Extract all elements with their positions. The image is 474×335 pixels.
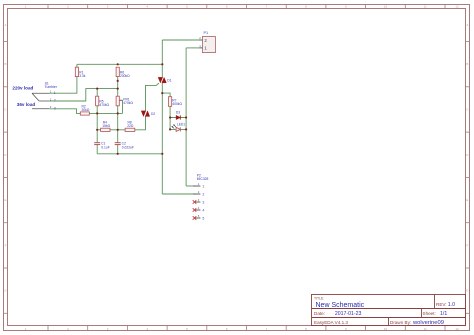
svg-text:0.022uF: 0.022uF: [122, 145, 134, 149]
wire top rail: [77, 63, 162, 65]
svg-text:11: 11: [424, 327, 427, 331]
wire right vertical P1 pin1 to P2 pin1: [185, 48, 187, 186]
svg-text:B: B: [4, 62, 6, 66]
junction dots: [96, 63, 187, 155]
svg-text:3: 3: [54, 107, 56, 111]
wire R5 column: [96, 89, 98, 97]
P2 pin 3 no-connect: [193, 200, 197, 204]
wire R7 branch: [162, 93, 170, 97]
svg-text:E: E: [4, 198, 6, 202]
svg-text:P1: P1: [204, 31, 209, 35]
svg-text:wolverine09: wolverine09: [412, 320, 444, 326]
wire C2 column: [117, 130, 119, 143]
junction bottom rail main vertical: [161, 153, 163, 155]
svg-text:220v load: 220v load: [12, 86, 33, 91]
wire R4 to R8: [110, 129, 125, 131]
frame ticks right: [466, 42, 470, 314]
wire P1 pin1 horizontal: [186, 47, 200, 49]
frame row letters: [4, 23, 469, 293]
svg-text:10: 10: [384, 327, 388, 331]
wire C1 bottom lead: [96, 145, 98, 154]
junction D3 right: [185, 116, 187, 118]
svg-text:400kΩ: 400kΩ: [172, 102, 182, 106]
svg-text:11: 11: [424, 4, 427, 8]
svg-text:F: F: [466, 243, 468, 247]
svg-text:A: A: [4, 23, 6, 27]
wire R2 to R5 PR1 bottom rail: [89, 112, 122, 114]
wire P1 pin2 horizontal: [162, 39, 199, 41]
junction top rail / P1 riser: [161, 63, 163, 65]
wire to P2 pin1: [186, 185, 194, 187]
junction D3 left: [169, 116, 171, 118]
triac D1: [158, 77, 171, 82]
svg-text:2: 2: [202, 193, 204, 197]
junction R4 left: [96, 129, 98, 131]
wire P1 pin2 riser: [161, 40, 163, 64]
svg-text:New Schematic: New Schematic: [316, 302, 365, 309]
wire R5 bottom to R4 row: [96, 113, 98, 129]
svg-text:3.3k: 3.3k: [79, 74, 86, 78]
title block: [312, 295, 466, 326]
svg-text:1: 1: [202, 185, 204, 189]
svg-text:F: F: [5, 243, 7, 247]
switch S1: [32, 81, 58, 110]
junction R5 top: [96, 88, 98, 90]
wire R4 left lead: [97, 129, 100, 131]
svg-text:2017-01-23: 2017-01-23: [335, 311, 362, 317]
P2 pin 5 no-connect: [193, 216, 197, 220]
junction LED left: [169, 128, 171, 130]
svg-text:Sheet:: Sheet:: [423, 311, 436, 316]
frame ticks bottom: [48, 326, 445, 331]
junction R6 bottom pin: [117, 80, 119, 82]
svg-text:MIC328: MIC328: [197, 177, 209, 181]
svg-text:EasyEDA V4.1.3: EasyEDA V4.1.3: [314, 320, 348, 325]
wire LED column: [169, 118, 171, 130]
P2 pin 5: [195, 217, 201, 219]
connector P2: [193, 174, 209, 221]
resistor R4: [101, 120, 111, 131]
svg-text:TITLE:: TITLE:: [314, 297, 324, 301]
diac D2: [141, 111, 155, 117]
wire C2 bottom lead: [117, 145, 119, 154]
svg-text:1/1: 1/1: [440, 311, 447, 317]
junction R5 bottom: [96, 112, 98, 114]
svg-text:3: 3: [202, 201, 204, 205]
junction R4 right: [117, 129, 119, 131]
frame ticks left: [4, 42, 8, 314]
resistor R5: [96, 96, 110, 107]
junction triac to R7: [161, 92, 163, 94]
junction PR1 top: [117, 88, 119, 90]
svg-text:12: 12: [455, 4, 459, 8]
svg-text:36v load: 36v load: [17, 102, 36, 107]
diode D3: [176, 111, 180, 120]
wire C1 column: [96, 130, 98, 143]
svg-text:D2: D2: [151, 112, 155, 116]
svg-text:B: B: [466, 62, 468, 66]
resistor R7: [169, 97, 183, 107]
wire main vertical to triac: [161, 64, 163, 77]
wire LED row: [170, 128, 186, 130]
resistor R2: [80, 104, 90, 115]
P2 pin 4 no-connect: [193, 208, 197, 212]
svg-text:5: 5: [202, 217, 204, 221]
svg-text:LED1: LED1: [177, 123, 185, 127]
svg-text:REV:: REV:: [436, 302, 447, 307]
wire R1 bottom to switch pin1: [49, 77, 77, 94]
wire switch pin2 to mid rail: [49, 89, 117, 101]
wire PR1 bottom lead: [117, 106, 119, 114]
svg-text:Date:: Date:: [314, 311, 325, 316]
wire R5 bottom lead: [96, 106, 98, 114]
svg-text:A: A: [466, 23, 468, 27]
wire R8 to D2 bottom: [135, 116, 146, 129]
wire PR1 wiper riser: [119, 100, 122, 113]
svg-text:D1: D1: [167, 79, 171, 83]
junction C2 bottom: [117, 153, 119, 155]
svg-text:E: E: [466, 198, 468, 202]
svg-text:D3: D3: [176, 111, 180, 115]
svg-text:470kΩ: 470kΩ: [99, 103, 109, 107]
svg-text:1.0: 1.0: [448, 302, 455, 308]
P2 pin 2: [193, 193, 200, 195]
wire triac gate to D2 top: [146, 83, 159, 111]
resistor R6: [116, 67, 130, 78]
svg-text:1: 1: [54, 91, 56, 95]
wire R7 bottom lead: [169, 106, 171, 117]
LED1: [172, 123, 186, 132]
svg-text:15kΩ: 15kΩ: [102, 124, 110, 128]
svg-text:470kΩ: 470kΩ: [123, 101, 133, 105]
P2 pin 3: [195, 201, 201, 203]
potentiometer PR1: [116, 96, 133, 106]
P2 pin 4: [195, 209, 201, 211]
wire D3 row: [170, 117, 186, 119]
svg-text:Tumbler: Tumbler: [45, 85, 58, 89]
P2 pin 1: [193, 185, 200, 187]
junction PR1 bottom: [117, 112, 119, 114]
wire PR1 column down to R4 row: [117, 113, 119, 129]
capacitor C1: [94, 142, 110, 150]
svg-text:22Ω: 22Ω: [127, 124, 134, 128]
capacitor C2: [115, 142, 134, 150]
frame ticks top: [48, 5, 445, 9]
svg-text:Drawn By:: Drawn By:: [390, 320, 411, 325]
svg-text:12: 12: [455, 327, 459, 331]
connector P1: [199, 31, 215, 53]
svg-text:10: 10: [384, 4, 388, 8]
junction LED right: [185, 128, 187, 130]
svg-text:0.1uF: 0.1uF: [101, 145, 109, 149]
svg-text:200kΩ: 200kΩ: [120, 74, 130, 78]
wire bottom rail: [97, 153, 162, 155]
resistor R8: [125, 120, 135, 131]
svg-text:30kΩ: 30kΩ: [82, 108, 90, 112]
wire R1 top: [76, 64, 78, 67]
svg-text:4: 4: [202, 209, 204, 213]
wire triac MT1 down to P2: [161, 83, 163, 194]
svg-text:2: 2: [54, 99, 56, 103]
resistor R1: [75, 67, 85, 78]
wire switch pin3 to R2: [49, 109, 80, 114]
wire to P2 pin2: [162, 193, 194, 195]
wire R6 bottom column: [117, 77, 119, 97]
junction R6 top: [117, 63, 119, 65]
